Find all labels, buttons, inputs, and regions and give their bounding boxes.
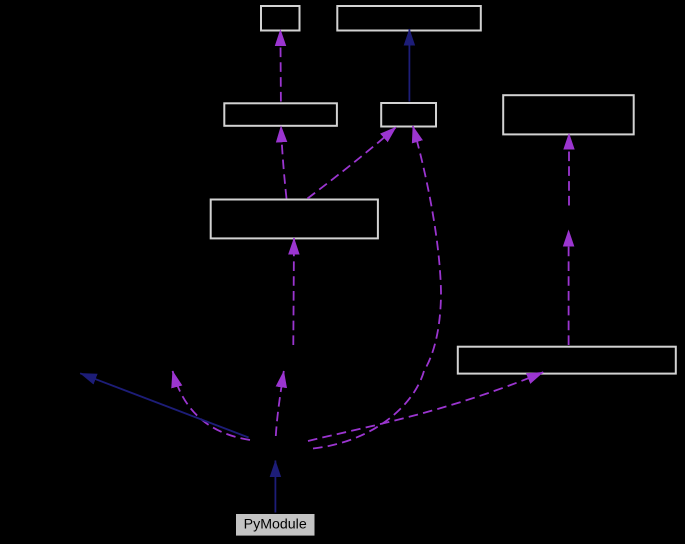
node A (small class box, top left) (261, 6, 300, 31)
edge F to C (purple dashed usage arrow) (281, 126, 287, 199)
edge hidden node N1 to N4 (purple dashed usage arrow, curving left) (173, 371, 250, 440)
node C (class box, second row left) (224, 103, 337, 126)
svg-text:PyModule: PyModule (244, 517, 307, 533)
edge hidden node N1 to D (purple dashed usage arrow, long right curve) (313, 126, 441, 449)
node F (two-line class box, middle) (211, 200, 378, 239)
edge G to hidden node N2 (purple dashed usage arrow) (568, 230, 570, 345)
edge F to D (purple dashed diagonal usage arrow) (308, 127, 397, 199)
node PyModule (grey filled current-class box) (236, 514, 315, 536)
node G (wide class box, lower right) (458, 347, 676, 374)
node D (class box, second row right) (381, 103, 436, 127)
node B (wide class box, top) (337, 6, 481, 31)
edge PyModule to hidden node N1 (blue solid inheritance arrow) (274, 461, 276, 513)
edge hidden node N1 to G (purple dashed usage arrow, long gentle curve) (308, 372, 543, 441)
edge hidden node R4 to F (purple dashed usage arrow) (292, 238, 295, 345)
node E (two-line class box, right) (503, 95, 634, 134)
edge hidden node N1 to R4 (purple dashed usage arrow) (276, 371, 284, 436)
edge D to B (blue solid inheritance arrow) (408, 29, 410, 102)
edge C to A (purple dashed usage arrow) (279, 30, 282, 102)
edge hidden node N1 to N3 (blue solid inheritance arrow, diagonal up-left) (80, 373, 248, 437)
edge hidden node N2 to E (purple dashed usage arrow) (568, 133, 570, 205)
